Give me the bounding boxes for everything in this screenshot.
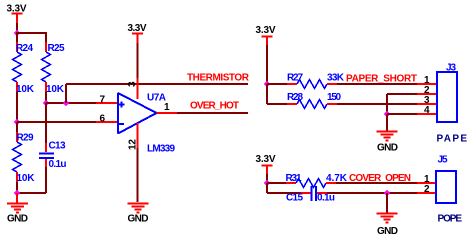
svg-text:R28: R28 — [287, 92, 303, 103]
wire 3.3V down — [266, 45, 268, 84]
svg-text:6: 6 — [100, 114, 106, 125]
svg-text:GND: GND — [377, 143, 398, 154]
power bar symbol 3.3V (op-amp) — [132, 34, 143, 44]
wire THERMISTOR net — [66, 83, 248, 85]
svg-text:4: 4 — [424, 105, 430, 116]
wire pin12 to ground — [137, 148, 139, 202]
wire R28 to J3 pin3 — [337, 103, 417, 105]
svg-text:7: 7 — [100, 95, 106, 106]
svg-text:R27: R27 — [287, 73, 303, 84]
junction node R25/pin7 wire — [43, 100, 50, 107]
junction node thermistor riser — [63, 100, 70, 107]
wire R31 to J5 pin1 — [336, 182, 417, 184]
svg-text:PAPE: PAPE — [437, 134, 468, 145]
svg-text:1: 1 — [164, 102, 170, 113]
connector J5 pin 1 — [417, 174, 437, 185]
connector J3 pin 3 — [417, 95, 437, 106]
svg-text:R29: R29 — [17, 133, 34, 144]
wire pin7 net horizontal — [46, 102, 96, 104]
svg-text:10K: 10K — [16, 84, 35, 95]
wire J3 pin4 — [387, 113, 417, 115]
wire J3 pin2 to gnd riser — [387, 94, 417, 114]
wire R25 top drop — [45, 32, 47, 42]
junction node R27 branch — [264, 81, 271, 88]
connector J3 pin 1 — [417, 75, 437, 86]
wire 3.3V to op-amp VCC pin — [137, 43, 139, 78]
wire to R27 — [267, 83, 287, 85]
wire to ground (J5) — [386, 193, 388, 213]
op-amp plus input marker — [118, 101, 124, 107]
ground symbol (op-amp) — [128, 204, 149, 225]
junction node gnd branch (J5) — [384, 190, 391, 197]
resistor R27 — [287, 73, 345, 89]
wire pin7 net down to C13 — [45, 103, 47, 143]
svg-text:10K: 10K — [17, 173, 36, 184]
ground symbol (J5) — [377, 214, 399, 238]
wire C13 bottom — [17, 167, 46, 193]
wire R25 bottom to pin7 net — [45, 92, 47, 103]
op-amp pin 12 (GND) — [128, 123, 139, 150]
wire 3.3V down to R31 junction — [266, 174, 268, 183]
svg-text:R31: R31 — [286, 173, 302, 184]
ground symbol (left) — [7, 193, 28, 225]
svg-text:3.3V: 3.3V — [128, 23, 147, 34]
wire from 3.3V down to junction — [16, 23, 18, 33]
svg-text:3: 3 — [127, 81, 138, 87]
svg-text:3.3V: 3.3V — [256, 154, 276, 165]
wire C15 to J5 pin2 — [327, 192, 417, 194]
svg-text:GND: GND — [7, 214, 28, 225]
resistor R25 — [42, 42, 65, 95]
op-amp pin 1 output — [157, 102, 178, 113]
svg-text:0.1u: 0.1u — [317, 193, 335, 204]
connector J3 pin 4 — [417, 105, 437, 116]
connector J3 pin 2 — [417, 85, 437, 96]
junction node R29/C13/GND — [14, 190, 21, 197]
op-amp U1 pin 3 (VCC) — [127, 78, 138, 99]
junction node at 3.3V rail split — [14, 30, 21, 37]
svg-text:2: 2 — [424, 184, 430, 195]
op-amp pin 7 — [96, 95, 117, 106]
svg-text:LM339: LM339 — [147, 144, 175, 155]
capacitor C13 — [39, 141, 67, 171]
wire down to R28 — [267, 84, 287, 104]
svg-text:GND: GND — [128, 214, 149, 225]
wire OVER_HOT net — [177, 112, 248, 114]
resistor R28 — [287, 92, 341, 109]
wire riser to THERMISTOR — [65, 84, 67, 103]
ground symbol (J3) — [377, 132, 399, 154]
junction node R31 branch — [264, 180, 271, 187]
wire 3.3V rail to R25 branch — [16, 32, 46, 34]
power bar symbol 3.3V (right top) — [262, 37, 273, 46]
wire down to C15 row — [267, 183, 301, 193]
wire to R31 — [267, 182, 286, 184]
svg-text:PAPER_SHORT: PAPER_SHORT — [346, 74, 417, 85]
svg-text:C15: C15 — [286, 193, 303, 204]
svg-text:33K: 33K — [327, 73, 345, 84]
op-amp pin 6 — [96, 114, 117, 125]
svg-text:THERMISTOR: THERMISTOR — [187, 73, 250, 84]
svg-text:0.1u: 0.1u — [49, 159, 67, 170]
svg-text:GND: GND — [377, 226, 398, 237]
resistor R31 — [286, 173, 348, 188]
wire R29 bottom to gnd junction — [16, 182, 18, 193]
connector J5 pin 2 — [417, 184, 437, 195]
svg-text:10K: 10K — [46, 84, 65, 95]
svg-text:3.3V: 3.3V — [256, 25, 276, 36]
connector J5 body — [436, 155, 456, 204]
wire R29 top — [16, 122, 18, 132]
power bar symbol 3.3V (left) — [12, 14, 23, 24]
svg-text:C13: C13 — [49, 141, 66, 152]
wire R24 bottom to pin6 net — [16, 92, 18, 122]
junction node pin4/gnd — [384, 111, 391, 118]
wire to ground (J3) — [386, 114, 388, 131]
junction node R24/R29/pin6 — [14, 119, 21, 126]
svg-text:150: 150 — [327, 92, 341, 103]
op-amp minus input marker — [118, 123, 124, 125]
resistor R24 — [13, 42, 35, 95]
svg-text:OVER_HOT: OVER_HOT — [190, 101, 239, 112]
wire to R24 top — [16, 33, 18, 42]
wire pin6 net horizontal — [17, 121, 96, 123]
wire R27 to J3 pin1 — [337, 83, 417, 85]
svg-text:R25: R25 — [48, 43, 65, 54]
svg-text:POPE: POPE — [438, 214, 463, 225]
resistor R29 — [13, 132, 36, 184]
svg-text:R24: R24 — [16, 43, 33, 54]
op-amp U7A triangle — [118, 93, 157, 134]
svg-text:J3: J3 — [446, 63, 456, 74]
power bar symbol 3.3V (right bottom) — [262, 166, 273, 175]
svg-text:J5: J5 — [438, 155, 448, 166]
capacitor C15 — [286, 186, 335, 204]
connector J3 body — [437, 63, 457, 123]
